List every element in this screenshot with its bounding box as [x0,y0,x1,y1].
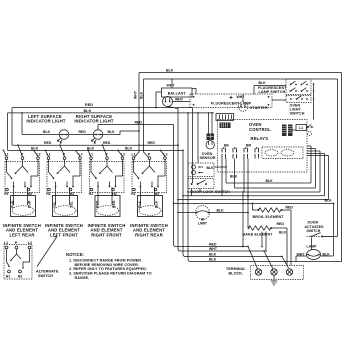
wire bus 2 [235,159,316,189]
right nested rails [311,146,329,200]
notice text [66,252,152,280]
svg-text:BLK: BLK [84,109,92,113]
svg-text:SWITCH: SWITCH [38,274,53,278]
svg-text:BLK: BLK [154,200,158,208]
bake element [243,196,288,266]
svg-text:BLK: BLK [266,179,274,183]
control transformer coils [282,125,293,137]
wire relay to terminal [242,192,244,247]
svg-text:PUR: PUR [11,200,15,208]
svg-text:LIMIT: LIMIT [198,222,208,226]
wire left rail L2 [7,113,9,150]
svg-text:H2: H2 [18,275,23,279]
svg-text:RIGHT REAR: RIGHT REAR [135,232,163,237]
door lock switch [188,179,230,196]
svg-text:WHT: WHT [167,84,176,88]
broil element [252,203,294,266]
wire BLK surface bus [8,149,184,151]
svg-text:L2: L2 [28,241,32,245]
svg-text:BLK: BLK [209,252,217,256]
svg-text:BLK: BLK [207,166,215,170]
wire door lock feed [197,113,199,163]
svg-text:RED: RED [44,141,52,145]
wire corridor rail 1 RED [174,125,177,247]
svg-text:BAKE ELEMENT: BAKE ELEMENT [243,233,274,237]
wire corridor rail 5 [192,108,194,183]
oven light switch SW-OL [272,83,314,120]
svg-text:H1: H1 [6,275,11,279]
starter S1 [237,95,268,112]
transformer T1 [220,123,231,129]
svg-text:BLK: BLK [230,174,238,178]
alternate switch [4,241,59,279]
wire BLK main bus [8,112,215,114]
wire bus BLK 1 [226,182,311,184]
wire bus 6 [174,202,334,204]
svg-text:RED: RED [277,222,285,226]
svg-text:RANGE.: RANGE. [75,276,90,280]
wire corridor rail 3 BLK [183,150,186,256]
wire right rail N [341,73,343,262]
svg-text:BLK: BLK [209,257,217,261]
svg-text:BLOCK.: BLOCK. [229,271,244,275]
svg-text:LAMP SWITCH: LAMP SWITCH [259,90,286,94]
fluorescent lamp switch SW-FL [258,79,311,95]
oven lamp [296,245,334,262]
svg-text:CONTROL: CONTROL [249,127,271,132]
svg-text:LEFT FRONT: LEFT FRONT [50,232,78,237]
ballast B1 [155,78,192,108]
wire corridor rail 2 WHT [178,109,181,252]
fluorescent lamp FL1 [190,89,272,108]
svg-text:RED: RED [103,141,111,145]
svg-text:STARTER: STARTER [250,106,268,110]
wire feeds to terminal lines [262,232,266,252]
svg-text:SWITCH: SWITCH [290,112,305,116]
oven sensor bulb [206,141,214,149]
svg-text:WHT: WHT [175,97,184,101]
svg-text:NOTICE:: NOTICE: [66,252,84,257]
node bus junction dots [17,144,19,146]
svg-text:WHT: WHT [209,247,218,251]
svg-text:RED: RED [135,120,143,124]
svg-text:BALLAST: BALLAST [168,92,186,96]
door lock motor [188,163,227,177]
svg-text:SENSOR: SENSOR [199,156,215,160]
svg-text:PUR: PUR [27,200,31,208]
clock connector [216,114,234,121]
svg-text:L1: L1 [299,126,303,130]
oven sensor leads [209,113,213,134]
svg-text:RED: RED [79,130,87,134]
svg-text:RED: RED [112,200,116,208]
svg-text:RED: RED [85,103,93,107]
oven control box [218,120,308,173]
wire right rail to door switch [337,79,339,237]
node junction dots on feeders [138,107,140,109]
svg-text:BLK: BLK [140,91,144,99]
svg-text:BLK: BLK [217,208,225,212]
wire terminal feed BLK [186,256,283,258]
svg-text:ALTERNATE: ALTERNATE [36,270,59,274]
wire indicator line [22,131,139,135]
svg-text:BLK: BLK [125,146,133,150]
wire terminal feed RED [176,246,248,248]
oven sensor connector [207,134,215,141]
relay BK [222,143,237,158]
relay BR [244,143,259,158]
svg-text:RED: RED [209,242,217,246]
svg-text:LAMP: LAMP [307,245,318,249]
wire RED surface bus [12,144,178,146]
svg-text:INDICATOR LIGHT: INDICATOR LIGHT [74,118,114,123]
svg-text:BLK: BLK [166,68,174,72]
svg-text:BLK: BLK [279,231,287,235]
svg-text:BR: BR [246,143,252,147]
wire bus 4 [183,195,325,197]
svg-text:RIGHT FRONT: RIGHT FRONT [91,232,122,237]
arrow alternate to left rear [37,237,57,267]
svg-text:BLK: BLK [259,81,267,85]
wire supply drop WHT [135,73,140,158]
svg-text:RED: RED [95,200,99,208]
svg-text:YEL: YEL [53,200,57,208]
infinite switch and element left front [45,145,83,237]
wire BLK to lamp switch [254,86,286,95]
svg-text:BLK: BLK [108,130,116,134]
svg-text:WHT: WHT [237,95,246,99]
infinite switch and element right rear [130,150,168,237]
svg-text:RELAYS: RELAYS [251,136,269,141]
relay coils dashed [262,147,303,159]
wire left rail L1 [11,108,13,146]
svg-text:BLK: BLK [325,199,333,203]
right surface indicator light DS2 [92,125,103,144]
terminal drops [248,247,289,269]
control L1 block [293,124,314,135]
wire indicator drop [21,113,23,135]
wire terminal feed WHT [181,250,265,252]
terminal block [226,266,304,280]
hi limit thermostat [177,206,249,226]
svg-text:BLK: BLK [138,200,142,208]
wire BLK top feeder L1 [139,72,342,74]
svg-text:BROIL ELEMENT: BROIL ELEMENT [253,215,285,219]
svg-text:P: P [15,241,18,245]
svg-text:WHT: WHT [133,90,137,99]
wire corridor rail 4 BLK [188,113,191,262]
svg-text:RED: RED [286,205,294,209]
infinite switch and element left rear [3,145,41,237]
svg-text:INDICATOR LIGHT: INDICATOR LIGHT [26,118,66,123]
svg-text:RED: RED [148,141,156,145]
wire bus 3 [188,191,320,193]
svg-text:SWITCH: SWITCH [307,229,321,233]
wire supply drop BLK [144,79,149,157]
wire neutral bottom BLK [191,261,342,263]
relay output drops [222,159,248,197]
svg-text:LEFT REAR: LEFT REAR [9,232,34,237]
wire WHT top feeder [144,78,338,80]
svg-text:L1: L1 [4,241,8,245]
fluorescent tube end cap [163,97,191,109]
wire RED branch line [98,124,174,126]
left surface indicator light DS1 [58,130,69,144]
door actuated switch [305,221,338,250]
wire RED main bus [12,107,193,109]
svg-text:BLK: BLK [31,146,39,150]
svg-text:BK: BK [224,143,230,147]
infinite switch and element right front [88,145,126,237]
svg-text:YEL: YEL [69,200,73,208]
wire bus 5 [178,199,329,201]
wire lamp rail BLK [333,203,335,256]
svg-text:BLK: BLK [43,130,51,134]
ground symbol [271,275,278,285]
